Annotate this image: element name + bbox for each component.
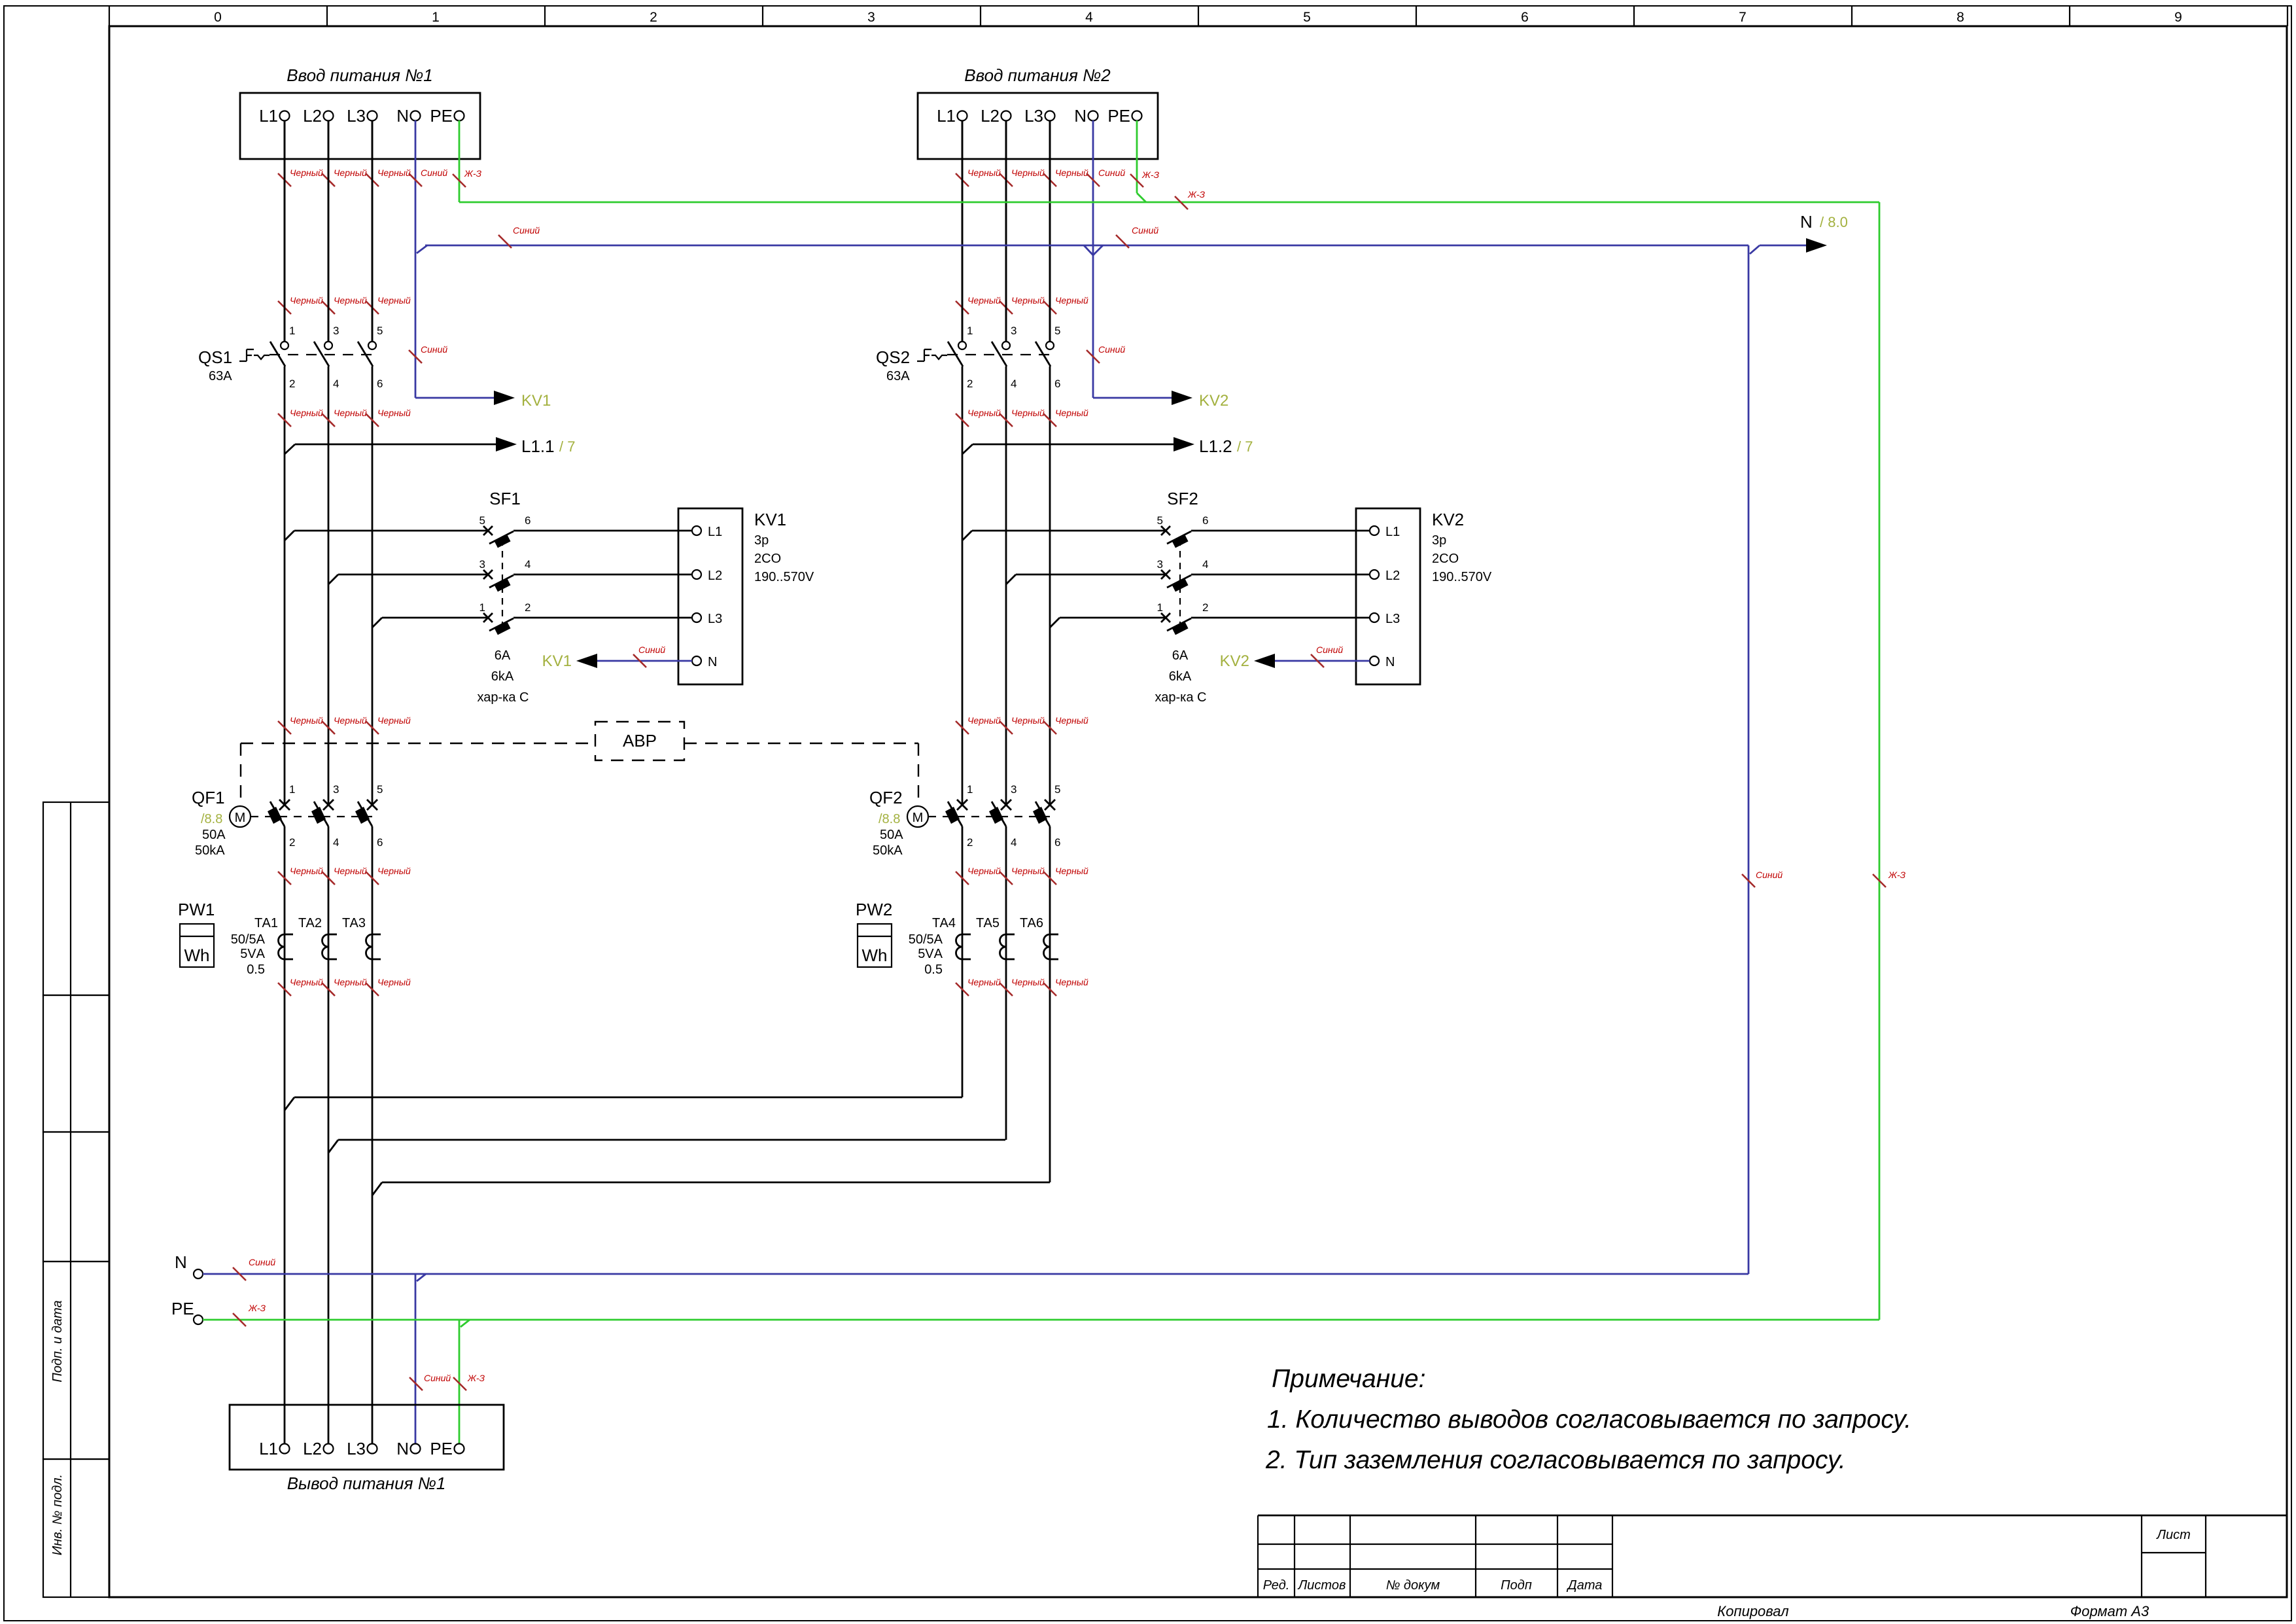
svg-text:N: N — [396, 106, 409, 126]
svg-text:L1: L1 — [1385, 525, 1400, 539]
svg-text:3: 3 — [1011, 325, 1017, 337]
svg-text:Ж-З: Ж-З — [248, 1303, 266, 1313]
svg-text:PW1: PW1 — [178, 900, 215, 919]
svg-text:Черный: Черный — [1055, 715, 1088, 726]
svg-text:Подп: Подп — [1501, 1578, 1532, 1593]
svg-text:/8.8: /8.8 — [878, 812, 900, 826]
svg-text:KV2: KV2 — [1432, 510, 1464, 529]
svg-text:Черный: Черный — [334, 715, 367, 726]
svg-text:Черный: Черный — [334, 866, 367, 876]
svg-text:Синий: Синий — [1316, 644, 1343, 655]
svg-text:ТА1: ТА1 — [254, 916, 278, 930]
svg-text:Черный: Черный — [334, 977, 367, 987]
svg-text:N: N — [1385, 655, 1395, 669]
wire phase L1 input1 to QS1 — [278, 120, 323, 341]
svg-text:Примечание:: Примечание: — [1272, 1365, 1425, 1393]
svg-text:Черный: Черный — [290, 866, 323, 876]
svg-text:KV1: KV1 — [754, 510, 786, 529]
svg-text:50/5А: 50/5А — [231, 932, 266, 947]
svg-text:N: N — [396, 1439, 409, 1458]
svg-text:Черный: Черный — [334, 295, 367, 306]
svg-text:L1.1: L1.1 — [521, 436, 555, 456]
svg-text:Ред.: Ред. — [1263, 1578, 1290, 1593]
svg-text:Синий: Синий — [421, 344, 447, 355]
svg-text:4: 4 — [1011, 378, 1017, 390]
svg-text:5VА: 5VА — [918, 947, 943, 961]
wire phase L3 QS2 to QF2 — [1043, 366, 1088, 805]
circuit breaker SF2 6А 6kА — [962, 489, 1370, 705]
svg-text:50А: 50А — [880, 828, 903, 842]
svg-text:6: 6 — [525, 514, 531, 527]
svg-text:SF2: SF2 — [1167, 489, 1198, 508]
svg-text:/ 8.0: / 8.0 — [1820, 214, 1848, 230]
wire phase L1 QF2 output — [956, 826, 1001, 1097]
svg-text:Синий: Синий — [1132, 225, 1158, 236]
svg-text:QF1: QF1 — [192, 788, 225, 807]
svg-text:ТА3: ТА3 — [342, 916, 366, 930]
svg-text:3: 3 — [333, 783, 339, 796]
svg-text:63А: 63А — [886, 369, 910, 383]
svg-text:Черный: Черный — [290, 408, 323, 418]
svg-text:Копировал: Копировал — [1717, 1603, 1788, 1619]
wire tap to KV2 with arrow — [1093, 391, 1228, 410]
svg-text:6kА: 6kА — [491, 669, 514, 684]
wire KV2 relay N terminal to reference arrow KV2 — [1220, 644, 1370, 670]
svg-text:Черный: Черный — [1011, 977, 1045, 987]
svg-text:N: N — [708, 655, 717, 669]
node junction N1 to N bus (jog) — [417, 245, 427, 253]
svg-text:Черный: Черный — [1055, 977, 1088, 987]
svg-text:2: 2 — [1202, 601, 1208, 614]
wire N input1 vertical (Синий) — [409, 120, 447, 398]
svg-text:6: 6 — [1202, 514, 1208, 527]
svg-text:Синий: Синий — [249, 1257, 275, 1267]
svg-text:1: 1 — [289, 783, 295, 796]
svg-text:QS1: QS1 — [198, 347, 232, 367]
svg-text:3: 3 — [479, 558, 485, 571]
svg-text:Формат А3: Формат А3 — [2070, 1603, 2149, 1619]
svg-text:190..570V: 190..570V — [754, 570, 814, 584]
svg-text:L3: L3 — [708, 612, 722, 626]
svg-text:M: M — [235, 811, 246, 825]
node input terminal block Ввод питания №1 — [240, 65, 480, 159]
svg-text:5: 5 — [1054, 783, 1060, 796]
svg-text:Черный: Черный — [967, 977, 1001, 987]
svg-text:хар-ка С: хар-ка С — [478, 690, 529, 705]
svg-text:PE: PE — [1107, 106, 1130, 126]
svg-text:0.5: 0.5 — [924, 962, 943, 977]
svg-text:1: 1 — [967, 783, 973, 796]
svg-text:6: 6 — [1054, 378, 1060, 390]
label CT ratings 50/5А 5VА 0.5 circuit 2 — [909, 932, 943, 977]
svg-text:Синий: Синий — [1098, 344, 1125, 355]
svg-text:1. Количество выводов согласов: 1. Количество выводов согласовывается по… — [1267, 1405, 1911, 1434]
svg-text:Черный: Черный — [1055, 866, 1088, 876]
wire KV1 relay N terminal to reference arrow KV1 — [542, 644, 692, 670]
svg-text:Синий: Синий — [424, 1373, 451, 1383]
svg-text:4: 4 — [1011, 836, 1017, 849]
svg-text:АВР: АВР — [623, 731, 657, 750]
svg-text:PE: PE — [171, 1299, 194, 1318]
svg-text:L2: L2 — [303, 106, 322, 126]
wire phase L2 QF2 output — [1000, 826, 1045, 1140]
svg-text:4: 4 — [1202, 558, 1208, 571]
wire tie L1 QF2 output to L1 bus — [285, 1097, 962, 1110]
svg-text:PE: PE — [430, 1439, 453, 1458]
wire N input2 vertical (Синий) — [1087, 120, 1125, 398]
svg-text:1: 1 — [432, 10, 440, 25]
svg-text:Черный: Черный — [377, 408, 411, 418]
svg-text:2: 2 — [967, 836, 973, 849]
svg-text:QF2: QF2 — [869, 788, 903, 807]
svg-text:Ж-З: Ж-З — [464, 168, 482, 179]
svg-text:6: 6 — [377, 836, 383, 849]
wire phase L1 QS1 to QF1 — [278, 366, 323, 805]
svg-text:Подп. и дата: Подп. и дата — [50, 1300, 65, 1382]
svg-text:5: 5 — [1157, 514, 1163, 527]
svg-text:5: 5 — [1054, 325, 1060, 337]
svg-text:QS2: QS2 — [876, 347, 910, 367]
svg-text:Черный: Черный — [967, 408, 1001, 418]
svg-text:3: 3 — [333, 325, 339, 337]
svg-text:L3: L3 — [347, 106, 366, 126]
svg-text:Синий: Синий — [421, 168, 447, 178]
svg-text:L2: L2 — [1385, 569, 1400, 583]
svg-text:4: 4 — [333, 836, 339, 849]
svg-text:3p: 3p — [754, 533, 769, 548]
current transformer ТА1 — [254, 916, 293, 959]
node tap L1.1 / 7 — [285, 436, 575, 456]
svg-text:Wh: Wh — [184, 945, 210, 965]
svg-text:L2: L2 — [981, 106, 1000, 126]
wire PE bus right vertical down — [1873, 202, 1906, 1320]
svg-text:1: 1 — [967, 325, 973, 337]
wire phase L2 QS1 to QF1 — [322, 366, 367, 805]
svg-text:3: 3 — [1157, 558, 1163, 571]
svg-text:Черный: Черный — [967, 715, 1001, 726]
svg-text:2. Тип заземления согласовывае: 2. Тип заземления согласовывается по зап… — [1265, 1446, 1846, 1474]
svg-text:L1.2: L1.2 — [1199, 436, 1232, 456]
svg-text:L1: L1 — [708, 525, 722, 539]
svg-text:ТА5: ТА5 — [976, 916, 1000, 930]
node input terminal block Ввод питания №2 — [918, 65, 1158, 159]
node tap L1.2 / 7 — [962, 436, 1253, 456]
svg-text:ТА6: ТА6 — [1020, 916, 1043, 930]
wire PE bus bottom (Ж-З) — [203, 1303, 1879, 1326]
svg-text:Лист: Лист — [2155, 1528, 2191, 1542]
svg-text:6А: 6А — [1172, 648, 1189, 663]
svg-text:Черный: Черный — [967, 866, 1001, 876]
wire phase L1 QF1 output — [278, 826, 323, 1444]
svg-text:6А: 6А — [495, 648, 511, 663]
wire tie L2 QF2 output to L2 bus — [328, 1140, 1005, 1153]
svg-text:2: 2 — [525, 601, 531, 614]
svg-text:3: 3 — [1011, 783, 1017, 796]
svg-text:1: 1 — [289, 325, 295, 337]
node N bus arrow N / 8.0 — [1750, 212, 1848, 254]
svg-text:2: 2 — [289, 836, 295, 849]
wire dashed АВР to QF2 motor — [684, 743, 918, 806]
svg-text:L2: L2 — [303, 1439, 322, 1458]
svg-text:Черный: Черный — [967, 168, 1001, 178]
svg-text:N: N — [1074, 106, 1087, 126]
svg-text:2: 2 — [967, 378, 973, 390]
svg-text:8: 8 — [1957, 10, 1964, 25]
wire phase L2 input2 to QS2 — [1000, 120, 1045, 341]
svg-text:N: N — [175, 1252, 187, 1272]
svg-text:Инв. № подл.: Инв. № подл. — [50, 1474, 65, 1555]
svg-text:Черный: Черный — [1011, 715, 1045, 726]
svg-text:Черный: Черный — [1011, 168, 1045, 178]
svg-text:Синий: Синий — [513, 225, 540, 236]
svg-text:L3: L3 — [1024, 106, 1043, 126]
svg-text:Ж-З: Ж-З — [1141, 169, 1160, 180]
current transformer ТА2 — [298, 916, 337, 959]
wire phase L3 input2 to QS2 — [1043, 120, 1088, 341]
svg-text:6kА: 6kА — [1169, 669, 1192, 684]
svg-text:2CO: 2CO — [754, 552, 781, 566]
svg-text:/ 7: / 7 — [1237, 438, 1253, 455]
svg-text:Черный: Черный — [377, 977, 411, 987]
svg-text:Wh: Wh — [862, 945, 888, 965]
svg-text:5: 5 — [377, 783, 383, 796]
svg-text:Черный: Черный — [1055, 408, 1088, 418]
node junction N bus to output box (jog) — [409, 1274, 451, 1444]
svg-text:Синий: Синий — [1098, 168, 1125, 178]
note Примечание — [1265, 1365, 1911, 1474]
svg-text:/ 7: / 7 — [559, 438, 575, 455]
wire N bus top (Синий) to right side — [425, 225, 1748, 248]
svg-text:Ж-З: Ж-З — [467, 1373, 485, 1383]
svg-text:Синий: Синий — [638, 644, 665, 655]
svg-text:PW2: PW2 — [856, 900, 892, 919]
svg-text:PE: PE — [430, 106, 453, 126]
svg-text:2: 2 — [289, 378, 295, 390]
svg-text:5VА: 5VА — [240, 947, 265, 961]
wire phase L1 input2 to QS2 — [956, 120, 1001, 341]
svg-text:5: 5 — [377, 325, 383, 337]
wire N bus bottom (Синий) — [203, 1257, 1748, 1280]
automatic transfer switch АВР dashed box — [595, 722, 684, 760]
svg-text:2CO: 2CO — [1432, 552, 1459, 566]
current transformer ТА5 — [976, 916, 1015, 959]
svg-text:4: 4 — [525, 558, 531, 571]
svg-text:7: 7 — [1739, 10, 1747, 25]
svg-text:Черный: Черный — [290, 715, 323, 726]
svg-text:Черный: Черный — [334, 168, 367, 178]
current transformer ТА4 — [932, 916, 971, 959]
wire PE input2 vertical (Ж-З) — [1130, 120, 1160, 202]
svg-text:/8.8: /8.8 — [201, 812, 222, 826]
svg-text:Черный: Черный — [967, 295, 1001, 306]
svg-text:6: 6 — [1521, 10, 1529, 25]
svg-text:1: 1 — [479, 601, 485, 614]
svg-text:L1: L1 — [937, 106, 956, 126]
energy meter PW1 Wh — [178, 900, 215, 967]
disconnect switch QS1 63А — [198, 120, 383, 390]
voltage relay KV2 3p 2CO 190..570V — [1356, 508, 1492, 684]
node N terminal bottom left — [175, 1252, 203, 1279]
node junction N2 to N bus (V jog) — [1084, 245, 1103, 255]
svg-text:1: 1 — [1157, 601, 1163, 614]
current transformer ТА6 — [1020, 916, 1058, 959]
svg-text:KV1: KV1 — [542, 652, 572, 670]
svg-text:Ввод питания №1: Ввод питания №1 — [287, 65, 433, 85]
svg-text:N: N — [1800, 212, 1813, 232]
wire tap to KV1 with arrow — [415, 391, 551, 410]
svg-text:Черный: Черный — [1055, 168, 1088, 178]
wire PE bus top (Ж-З) to right side — [459, 189, 1879, 209]
svg-text:4: 4 — [1085, 10, 1093, 25]
svg-text:0.5: 0.5 — [247, 962, 265, 977]
wire tie L3 QF2 output to L3 bus — [372, 1182, 1050, 1195]
svg-text:Черный: Черный — [377, 866, 411, 876]
svg-text:0: 0 — [214, 10, 222, 25]
svg-text:Черный: Черный — [1055, 295, 1088, 306]
svg-text:Черный: Черный — [290, 977, 323, 987]
node output terminal block Вывод питания №1 — [230, 1405, 504, 1493]
svg-text:5: 5 — [479, 514, 485, 527]
svg-text:KV1: KV1 — [521, 392, 551, 410]
wire N bus right vertical down — [1742, 245, 1783, 1274]
circuit breaker SF1 6А 6kА — [285, 489, 692, 705]
svg-text:Черный: Черный — [377, 168, 411, 178]
svg-text:Черный: Черный — [377, 295, 411, 306]
svg-text:ТА4: ТА4 — [932, 916, 956, 930]
current transformer ТА3 — [342, 916, 381, 959]
svg-text:6: 6 — [1054, 836, 1060, 849]
svg-text:Черный: Черный — [334, 408, 367, 418]
wire phase L1 QS2 to QF2 — [956, 366, 1001, 805]
svg-text:Черный: Черный — [1011, 295, 1045, 306]
voltage relay KV1 3p 2CO 190..570V — [678, 508, 814, 684]
svg-text:№ докум: № докум — [1386, 1578, 1440, 1593]
wire phase L3 QF2 output — [1043, 826, 1088, 1182]
svg-text:50А: 50А — [202, 828, 226, 842]
svg-text:Ж-З: Ж-З — [1888, 870, 1906, 880]
svg-text:L2: L2 — [708, 569, 722, 583]
wire phase L3 QS1 to QF1 — [366, 366, 411, 805]
svg-text:KV2: KV2 — [1220, 652, 1249, 670]
svg-text:L1: L1 — [259, 106, 278, 126]
svg-text:50kА: 50kА — [195, 843, 225, 858]
svg-text:Вывод питания №1: Вывод питания №1 — [287, 1474, 446, 1493]
svg-text:50/5А: 50/5А — [909, 932, 943, 947]
svg-text:KV2: KV2 — [1199, 392, 1228, 410]
svg-text:6: 6 — [377, 378, 383, 390]
svg-text:2: 2 — [650, 10, 657, 25]
wire PE input1 vertical (Ж-З) — [453, 120, 482, 202]
svg-text:50kА: 50kА — [873, 843, 903, 858]
svg-text:3p: 3p — [1432, 533, 1446, 548]
energy meter PW2 Wh — [856, 900, 892, 967]
svg-text:L1: L1 — [259, 1439, 278, 1458]
svg-text:Черный: Черный — [1011, 866, 1045, 876]
wire phase L3 QF1 output — [366, 826, 411, 1444]
svg-text:Черный: Черный — [377, 715, 411, 726]
svg-text:ТА2: ТА2 — [298, 916, 322, 930]
wire phase L2 input1 to QS1 — [322, 120, 367, 341]
svg-text:3: 3 — [867, 10, 875, 25]
label CT ratings 50/5А 5VА 0.5 circuit 1 — [231, 932, 266, 977]
svg-text:Синий: Синий — [1756, 870, 1783, 880]
svg-text:Черный: Черный — [290, 168, 323, 178]
svg-text:63А: 63А — [209, 369, 232, 383]
svg-text:Ввод питания №2: Ввод питания №2 — [964, 65, 1111, 85]
svg-text:190..570V: 190..570V — [1432, 570, 1492, 584]
wire dashed QF1 motor to АВР — [241, 743, 595, 806]
svg-text:M: M — [913, 811, 924, 825]
motorized circuit breaker QF1 50А 50kА — [192, 783, 383, 858]
svg-text:9: 9 — [2174, 10, 2182, 25]
svg-text:SF1: SF1 — [489, 489, 521, 508]
disconnect switch QS2 63А — [876, 120, 1060, 390]
svg-text:Черный: Черный — [1011, 408, 1045, 418]
motorized circuit breaker QF2 50А 50kА — [869, 783, 1060, 858]
node PE terminal bottom left — [171, 1299, 203, 1324]
wire phase L2 QS2 to QF2 — [1000, 366, 1045, 805]
svg-text:Ж-З: Ж-З — [1187, 189, 1206, 200]
svg-text:4: 4 — [333, 378, 339, 390]
svg-text:хар-ка С: хар-ка С — [1155, 690, 1207, 705]
svg-text:Листов: Листов — [1297, 1578, 1346, 1593]
svg-text:L3: L3 — [347, 1439, 366, 1458]
node junction PE bus to output box (jog) — [453, 1320, 485, 1444]
svg-text:5: 5 — [1303, 10, 1311, 25]
svg-text:L3: L3 — [1385, 612, 1400, 626]
wire phase L3 input1 to QS1 — [366, 120, 411, 341]
svg-text:Дата: Дата — [1567, 1578, 1603, 1593]
svg-text:Черный: Черный — [290, 295, 323, 306]
wire phase L2 QF1 output — [322, 826, 367, 1444]
